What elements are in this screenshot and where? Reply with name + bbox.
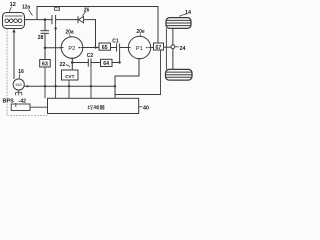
gear box 63 — [40, 60, 51, 68]
svg-text:14: 14 — [185, 10, 191, 16]
svg-text:12a: 12a — [22, 5, 31, 11]
wire node A down to 28 — [44, 20, 46, 31]
svg-text:24: 24 — [180, 46, 186, 52]
P2 side ticks — [60, 47, 64, 49]
clutch C1 plates — [116, 44, 118, 52]
pulley P1 — [128, 36, 150, 58]
label 20a lead — [69, 34, 71, 37]
controller text (drawn glyphs) — [88, 105, 105, 109]
one-way clutch 26 — [78, 16, 84, 23]
brake box 65 — [99, 43, 111, 50]
svg-text:67: 67 — [156, 45, 162, 51]
brake box 64 — [101, 59, 113, 66]
node on C3 line — [54, 27, 56, 29]
svg-text:26: 26 — [84, 8, 90, 14]
P2 bottom shaft to CVT — [71, 58, 73, 70]
brake box 67 — [154, 43, 164, 50]
svg-text:28: 28 — [38, 35, 44, 41]
axle shaft double line upper — [165, 28, 167, 69]
svg-text:22: 22 — [60, 62, 66, 68]
svg-text:C1: C1 — [112, 39, 119, 45]
P1 side ticks — [127, 47, 131, 49]
label 20e lead — [139, 34, 142, 37]
wire node B to pulley P2 — [45, 47, 61, 49]
MG three-phase leads — [16, 90, 22, 95]
engine-MG shaft — [13, 32, 15, 80]
wire diode to corner — [84, 20, 96, 48]
glyph qi — [100, 105, 105, 109]
engine cylinder circles — [5, 19, 22, 23]
shaft arrowhead — [12, 29, 15, 33]
wire lower branch to C2 — [72, 62, 88, 64]
battery inner mark — [15, 103, 17, 107]
clutch C2 plates — [87, 59, 89, 67]
svg-text:C2: C2 — [87, 53, 94, 59]
motor-generator MG 16 — [13, 79, 24, 90]
axle shaft lower — [172, 49, 174, 70]
svg-text:16: 16 — [18, 69, 24, 75]
label 22 lead — [66, 65, 70, 67]
svg-text:63: 63 — [42, 62, 48, 68]
node B junction dot — [44, 47, 47, 50]
glyph kong — [88, 105, 93, 109]
clutch 28 plates — [41, 30, 50, 32]
pulley P2 — [61, 37, 83, 59]
svg-text:64: 64 — [103, 61, 109, 67]
svg-text:BPS: BPS — [3, 98, 15, 104]
wire P1 bottom L to controller — [115, 59, 139, 99]
svg-text:P2: P2 — [68, 46, 75, 52]
svg-text:C3: C3 — [54, 7, 61, 13]
svg-text:40: 40 — [143, 105, 149, 111]
label 26 lead — [83, 12, 86, 17]
wire C3 plate line down — [55, 24, 57, 98]
label 24 dash — [175, 46, 179, 48]
wire C3 to diode — [56, 19, 78, 21]
controller dashed line left — [7, 29, 48, 116]
wire P2 right to box 65 — [83, 47, 99, 49]
label 14 lead — [180, 14, 187, 18]
CVT box — [62, 70, 79, 80]
glyph zhi — [94, 105, 99, 109]
svg-text:20a: 20a — [65, 30, 74, 36]
wire engine output y=19.6 — [25, 19, 52, 21]
svg-text:P1: P1 — [136, 46, 143, 52]
battery box 42 — [11, 104, 30, 111]
svg-text:20e: 20e — [136, 29, 145, 35]
label 12a lead — [29, 10, 33, 16]
top bypass wire — [37, 7, 158, 43]
engine inner bottom line — [5, 25, 23, 27]
clutch C3 plates — [51, 15, 53, 24]
wire 28 down to node B — [44, 33, 46, 59]
wire C2 plate line down — [90, 67, 92, 99]
wire 63 to bus — [44, 67, 46, 98]
wire 65 to C1 — [111, 47, 117, 49]
svg-text:-42: -42 — [19, 98, 27, 104]
bus wire MG to controller drop — [24, 85, 115, 87]
label 40 dash — [139, 106, 143, 108]
svg-text:CVT: CVT — [65, 74, 74, 79]
wheel rear — [166, 69, 193, 80]
engine inner top line — [5, 15, 23, 17]
wire 67 to axle circle — [164, 46, 172, 48]
wire C1 to pulley P1 — [120, 47, 129, 49]
svg-text:MG: MG — [15, 82, 21, 87]
wire CVT to bus — [68, 80, 70, 98]
node A junction dot — [44, 18, 47, 21]
wire 67 bottom to controller feedback — [115, 50, 161, 95]
label 16 lead — [19, 74, 20, 79]
svg-text:65: 65 — [102, 45, 108, 51]
P1 bottom tick — [138, 58, 142, 60]
wire P1 to box 67 — [151, 47, 154, 49]
controller box 40 — [48, 98, 139, 113]
wire battery to controller — [30, 106, 48, 108]
label 12 lead — [9, 7, 11, 12]
wire C2 to box 64 — [91, 62, 101, 64]
differential circle 24 — [171, 45, 175, 49]
engine 12 body — [3, 13, 25, 29]
wire 64 to C1 line — [112, 62, 120, 64]
wire C1 plate line down — [119, 52, 121, 63]
svg-text:12: 12 — [10, 2, 16, 8]
wheel 14 front — [166, 18, 191, 29]
